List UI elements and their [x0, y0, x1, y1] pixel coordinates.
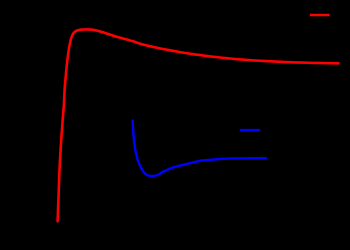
red legend key — [310, 14, 330, 17]
blue legend key — [240, 129, 260, 131]
red curve — [58, 29, 339, 221]
blue curve — [133, 121, 266, 177]
